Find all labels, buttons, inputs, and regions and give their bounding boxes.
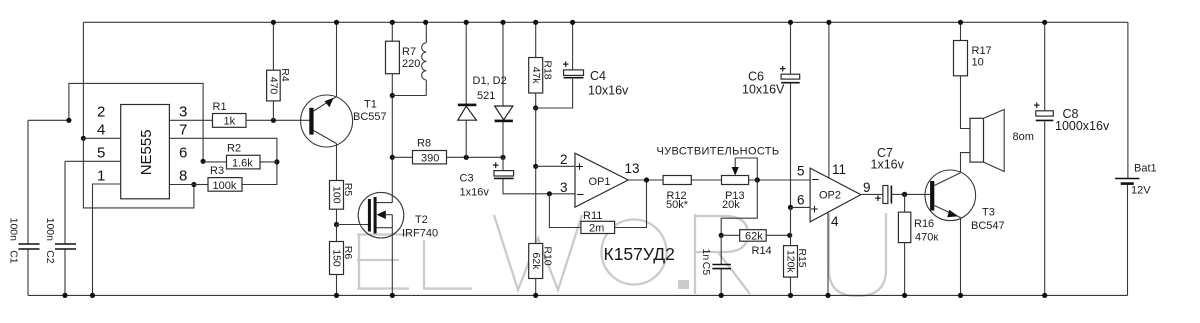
node C4 junction: [533, 105, 538, 110]
svg-text:1x16v: 1x16v: [871, 158, 905, 172]
node coil top: [423, 20, 428, 25]
svg-text:150: 150: [331, 249, 343, 267]
svg-text:120k: 120k: [785, 250, 797, 274]
svg-text:К157УД2: К157УД2: [604, 244, 675, 264]
capacitor C4: [536, 22, 629, 108]
resistor R12: [663, 176, 691, 211]
wire pin4 to pin8 loop: [83, 138, 193, 208]
svg-text:100k: 100k: [213, 180, 237, 192]
svg-text:R18: R18: [541, 60, 553, 79]
node R7 top: [390, 20, 395, 25]
capacitor C5: [700, 235, 731, 295]
node R10 ground: [533, 293, 538, 298]
wire T2 source to ground: [391, 228, 393, 296]
watermark ELWO.RU: [357, 213, 886, 296]
node R4 top: [271, 20, 276, 25]
wire +V riser to pin4: [82, 22, 84, 138]
svg-text:10x16V: 10x16V: [742, 83, 785, 97]
svg-text:R3: R3: [210, 165, 224, 177]
svg-text:ЧУВСТВИТЕЛЬНОСТЬ: ЧУВСТВИТЕЛЬНОСТЬ: [657, 146, 780, 158]
svg-text:C5: C5: [700, 262, 712, 276]
node P13 output junction: [755, 177, 760, 182]
svg-text:+: +: [811, 202, 819, 217]
svg-text:4: 4: [97, 122, 105, 139]
svg-text:100n: 100n: [44, 218, 56, 242]
svg-text:T1: T1: [364, 99, 377, 111]
capacitor C3: [460, 157, 576, 198]
svg-text:R2: R2: [227, 143, 241, 155]
node pin2 junction: [66, 118, 71, 123]
svg-text:5: 5: [797, 164, 805, 179]
node C4 top: [570, 20, 575, 25]
capacitor C6: [742, 22, 800, 207]
svg-text:1x16v: 1x16v: [460, 187, 490, 199]
node pin3 feedback junction: [547, 191, 552, 196]
svg-text:R11: R11: [583, 210, 602, 222]
node R8 junction: [390, 155, 395, 160]
svg-text:11: 11: [832, 162, 846, 177]
svg-text:R17: R17: [972, 45, 992, 57]
capacitor C2: [44, 161, 76, 295]
svg-text:+: +: [576, 159, 584, 174]
svg-text:+: +: [1034, 100, 1040, 112]
wire OP2 output: [861, 193, 883, 195]
svg-text:10: 10: [972, 57, 984, 69]
resistor R5: [330, 181, 355, 225]
svg-text:R4: R4: [279, 68, 291, 82]
wire OP1 output: [628, 179, 663, 181]
node R6 ground: [334, 293, 339, 298]
node C8 ground: [1042, 293, 1047, 298]
node pin8 junction: [191, 182, 196, 187]
svg-text:12V: 12V: [1131, 185, 1151, 197]
wire pin3 to R1: [169, 119, 212, 121]
svg-text:C1: C1: [7, 250, 19, 264]
svg-text:100n: 100n: [7, 218, 19, 242]
svg-text:3: 3: [179, 104, 187, 121]
svg-text:1.6k: 1.6k: [232, 157, 253, 169]
resistor R17: [954, 22, 992, 128]
svg-text:9: 9: [863, 180, 871, 195]
wire gate to T2: [337, 224, 369, 226]
svg-text:C2: C2: [44, 250, 56, 264]
wire pin1 to ground: [93, 184, 121, 295]
resistor R2: [203, 143, 277, 170]
node D2 C3 junction: [500, 155, 505, 160]
capacitor C1: [7, 120, 39, 295]
svg-text:+: +: [875, 193, 881, 205]
svg-text:C6: C6: [748, 69, 764, 83]
wire T2 drain column: [391, 96, 393, 203]
resistor R14: [721, 230, 790, 257]
node OP1 output junction: [644, 177, 649, 182]
svg-text:470к: 470к: [915, 232, 938, 244]
wire C6 column to R15: [790, 207, 792, 245]
svg-text:C3: C3: [460, 173, 474, 185]
wire T1 emitter to rail: [336, 22, 338, 96]
svg-text:R15: R15: [796, 248, 808, 267]
svg-text:OP2: OP2: [819, 190, 841, 202]
node gate junction: [334, 222, 339, 227]
svg-text:D1, D2: D1, D2: [473, 75, 507, 87]
svg-text:BC547: BC547: [971, 220, 1005, 232]
node R2 right junction: [274, 159, 279, 164]
node R16 ground: [902, 293, 907, 298]
node pin2 OP1 junction: [533, 164, 538, 169]
svg-text:62k: 62k: [745, 230, 763, 242]
svg-text:2: 2: [560, 152, 568, 167]
speaker SP1: [970, 110, 1034, 172]
svg-text:BC557: BC557: [353, 111, 387, 123]
potentiometer P13: [722, 158, 758, 211]
op-amp OP2: [797, 162, 871, 229]
wire OP2 pin11 to rail: [828, 22, 830, 178]
transistor T1 BC557: [301, 95, 387, 147]
svg-text:6: 6: [797, 193, 805, 208]
svg-text:390: 390: [421, 153, 439, 165]
wire OP2 pin4 to ground: [827, 213, 829, 296]
node T3 base junction: [902, 192, 907, 197]
node C2 ground: [62, 293, 67, 298]
node C8 top: [1042, 20, 1047, 25]
svg-text:Bat1: Bat1: [1134, 163, 1157, 175]
diode D2: [495, 22, 513, 157]
node T1 rail: [334, 20, 339, 25]
node R4 base junction: [271, 118, 276, 123]
node D1 bottom: [464, 155, 469, 160]
node C6 top: [788, 20, 793, 25]
svg-text:1000x16v: 1000x16v: [1055, 119, 1110, 133]
svg-text:T3: T3: [982, 207, 995, 219]
wire pin8 stub: [169, 184, 194, 186]
node C5 ground: [719, 293, 724, 298]
wire T3 emitter to ground: [960, 218, 962, 296]
node R7 bottom junction: [390, 93, 395, 98]
wire R8 to D1 D2 C3: [447, 156, 504, 158]
resistor R11: [581, 210, 615, 235]
transistor T2 IRF740: [358, 192, 438, 239]
svg-text:R16: R16: [914, 218, 934, 230]
resistor R4: [267, 22, 291, 120]
svg-text:5: 5: [97, 145, 105, 162]
wire R1 to T1 base: [246, 119, 310, 121]
node R17 top: [958, 20, 963, 25]
svg-text:62k: 62k: [530, 253, 542, 271]
capacitor C8: [1034, 22, 1110, 295]
svg-text:50k*: 50k*: [666, 199, 689, 211]
resistor R15: [784, 246, 809, 296]
node T2 source ground: [390, 293, 395, 298]
node D2 top: [500, 20, 505, 25]
svg-text:R14: R14: [752, 245, 772, 257]
svg-text:4: 4: [831, 214, 839, 229]
svg-text:100: 100: [331, 186, 343, 204]
svg-text:10x16v: 10x16v: [588, 84, 629, 98]
svg-text:470: 470: [268, 77, 280, 95]
wire pin6 OP2: [791, 206, 811, 208]
node R15 ground: [788, 293, 793, 298]
resistor R3: [194, 165, 242, 192]
diode D1: [458, 22, 477, 157]
wire R11 feedback loop: [549, 180, 646, 228]
svg-text:R1: R1: [213, 101, 227, 113]
resistor R1: [213, 101, 247, 128]
wire T3 collector to speaker: [961, 153, 971, 173]
node pin4 junction: [81, 136, 86, 141]
svg-text:−: −: [577, 187, 585, 202]
resistor R10: [529, 244, 554, 296]
svg-text:R7: R7: [402, 46, 416, 58]
svg-text:1k: 1k: [224, 116, 236, 128]
svg-text:8: 8: [179, 167, 187, 184]
svg-text:2m: 2m: [589, 223, 604, 235]
svg-text:C4: C4: [590, 69, 606, 83]
svg-text:2: 2: [97, 104, 105, 121]
node D1 top: [464, 20, 469, 25]
svg-text:R8: R8: [417, 138, 431, 150]
wire T1 collector to R5: [336, 144, 338, 181]
wire to C5 R14: [721, 180, 757, 235]
svg-text:IRF740: IRF740: [402, 228, 438, 240]
svg-text:R5: R5: [342, 183, 354, 197]
svg-text:−: −: [812, 172, 820, 187]
svg-text:+: +: [563, 59, 569, 71]
resistor R7: [386, 22, 421, 95]
node pin6 junction: [201, 159, 206, 164]
svg-text:OP1: OP1: [589, 176, 611, 188]
svg-text:13: 13: [625, 161, 640, 176]
svg-text:6: 6: [179, 145, 187, 162]
svg-text:521: 521: [477, 90, 495, 102]
wire pin7 to R2/R3 right: [169, 138, 277, 184]
svg-text:R10: R10: [541, 246, 553, 265]
node R14 left junction: [719, 233, 724, 238]
svg-text:R6: R6: [342, 246, 354, 260]
wire top rail: [83, 21, 1128, 23]
svg-text:47k: 47k: [530, 67, 542, 85]
svg-text:1n: 1n: [700, 249, 712, 261]
resistor R6: [330, 225, 355, 296]
svg-text:8om: 8om: [1013, 131, 1034, 143]
node pin11 top: [826, 20, 831, 25]
svg-text:220: 220: [402, 58, 420, 70]
svg-text:1: 1: [97, 167, 105, 184]
wire drain to R8: [392, 156, 412, 158]
svg-text:3: 3: [560, 180, 568, 195]
svg-text:7: 7: [179, 122, 187, 139]
svg-text:NE555: NE555: [138, 129, 155, 175]
resistor R8: [413, 138, 447, 165]
node pin1 ground: [90, 293, 95, 298]
inductor L1 search coil: [422, 22, 427, 95]
svg-text:T2: T2: [415, 214, 428, 226]
wire P13 to OP2 pin5: [749, 179, 811, 181]
resistor R16: [898, 194, 938, 295]
wire R18 column to pin2 and R10: [535, 108, 537, 244]
wire R12 to P13: [691, 179, 721, 181]
wire bottom ground rail: [28, 294, 1128, 296]
svg-text:20k: 20k: [722, 199, 740, 211]
wire R7 to coil bottom: [392, 95, 426, 97]
op-amp U1 NE555: [97, 104, 187, 199]
resistor R18: [529, 22, 554, 108]
op-amp OP1: [560, 152, 640, 207]
wire pin5 stub: [65, 160, 121, 162]
node pin6 OP2 junction: [788, 205, 793, 210]
node pin4 ground: [825, 293, 830, 298]
wire pin4 stub: [83, 137, 120, 139]
transistor T3 BC547: [925, 170, 1005, 232]
capacitor C7: [871, 146, 931, 205]
battery Bat1: [1115, 22, 1157, 295]
node T3 emitter ground: [958, 293, 963, 298]
wire pin2 OP1: [536, 165, 575, 167]
node R14 right junction: [787, 233, 792, 238]
wire pin2 left and loop to pin6: [28, 83, 203, 161]
node R18 top: [533, 20, 538, 25]
